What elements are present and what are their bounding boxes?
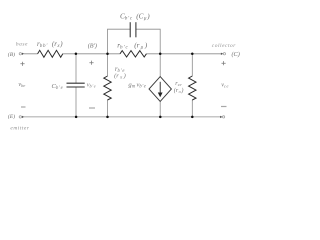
svg-text:(rπ): (rπ): [114, 73, 126, 80]
svg-text:vbe: vbe: [18, 81, 25, 88]
svg-text:vce: vce: [221, 81, 229, 88]
svg-text:(C): (C): [232, 51, 240, 58]
svg-text:(E): (E): [8, 113, 15, 120]
svg-text:(ro): (ro): [174, 87, 184, 94]
svg-text:(B′): (B′): [88, 42, 97, 49]
svg-text:(B): (B): [8, 51, 15, 58]
svg-text:vb′e: vb′e: [87, 82, 97, 89]
svg-text:collector: collector: [212, 43, 236, 49]
svg-text:emitter: emitter: [10, 125, 29, 131]
svg-text:base: base: [16, 42, 28, 48]
